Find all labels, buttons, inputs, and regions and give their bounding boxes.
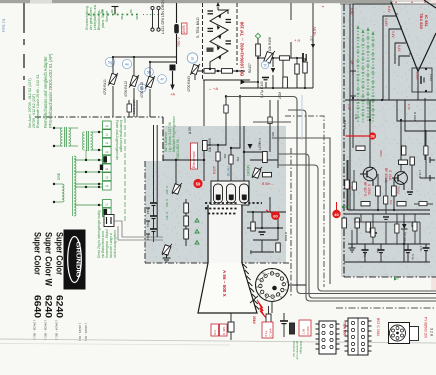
svg-text:( 34223 - 01 ): ( 34223 - 01 ) (78, 323, 82, 341)
label: BF 459 G red (384, 168, 392, 183)
svg-text:2,7k: 2,7k (354, 114, 358, 120)
svg-text:RA157: RA157 (248, 63, 252, 73)
dashed rail left of multiplier (202, 3, 204, 80)
svg-text:0,4V: 0,4V (391, 31, 395, 38)
resistor R698 (251, 222, 255, 231)
resistor R992 (345, 180, 349, 189)
resistor R460 (295, 64, 299, 74)
red spot 59 (193, 179, 202, 188)
svg-text:15k: 15k (223, 154, 227, 159)
dotted neck crossing row 2 (205, 209, 238, 214)
resistor R684 (290, 323, 295, 334)
connector pins L421 (151, 6, 160, 31)
wire: y122 link (253, 121, 291, 123)
svg-text:+: + (322, 5, 324, 9)
junction dots center block (175, 95, 279, 229)
potentiometer R411 (108, 73, 118, 86)
svg-text:10: 10 (390, 0, 394, 4)
wire: pin 6 L (399, 56, 410, 66)
svg-text:BD 160/641=002 ↔ Trf 198: BD 160/641=002 ↔ Trf 198 (240, 21, 245, 76)
green warning triangles (195, 219, 199, 245)
resistor R991 (366, 222, 370, 232)
diode D484 (218, 35, 221, 40)
svg-text:BST C 0581: BST C 0581 (376, 318, 380, 337)
label: red box R684 (299, 320, 311, 336)
potentiometer R463 (190, 64, 200, 80)
label: TBA 530 IC 981 (419, 13, 429, 30)
resistor R696 (263, 173, 272, 177)
svg-text:↔ +A: ↔ +A (208, 86, 218, 91)
page fold line 2 (0, 344, 230, 346)
svg-text:1,1k: 1,1k (347, 104, 351, 110)
right edge pink tint (431, 0, 436, 290)
red spot 40 (332, 210, 340, 218)
wire: resistor row (198, 71, 250, 80)
svg-text:40: 40 (334, 212, 339, 217)
shaded module: CRT base panel (center block) (145, 126, 286, 263)
svg-text:560: 560 (271, 132, 275, 137)
svg-text:0,47µ C143: 0,47µ C143 (260, 81, 264, 98)
title: Super Color W 6240 (44, 232, 54, 318)
svg-text:4700 R411: 4700 R411 (103, 79, 107, 95)
potentiometer R458 (264, 51, 275, 63)
label: green cap refs (165, 186, 169, 220)
page fold line (0, 339, 436, 343)
svg-text:BLAU: BLAU (227, 166, 231, 176)
wire: right block extras (347, 130, 433, 244)
svg-text:R 395: R 395 (222, 327, 226, 335)
resistor R994 (384, 196, 388, 204)
resistor R688 above block (224, 105, 228, 113)
wire: heater leads (250, 285, 306, 313)
green dotted feeder line (88, 14, 140, 16)
CRT base pin numbers (256, 267, 289, 302)
svg-text:10: 10 (105, 124, 109, 128)
resistor R692 gun wire (229, 155, 233, 164)
resistor R995 (419, 202, 427, 206)
svg-text:1,5k: 1,5k (419, 246, 423, 252)
diode D486 (218, 55, 221, 60)
capacitor C982 (371, 233, 377, 235)
op-amp output drop (417, 72, 419, 101)
junction dots op-amp (381, 68, 427, 101)
IC U980 DIP (316, 321, 340, 354)
svg-text:0,1µ: 0,1µ (411, 254, 415, 260)
wire: pot bus top (113, 57, 176, 117)
svg-text:14: 14 (105, 167, 109, 171)
dash-dot boundary: horizontal module line left (35, 116, 163, 118)
dash-dot boundary: right block left edge (343, 4, 345, 277)
wire: stage interconnect (348, 98, 430, 210)
potentiometer R695 (252, 167, 262, 178)
transistor Q984 BF459 (392, 171, 407, 190)
svg-text:TBA 530: TBA 530 (419, 13, 424, 30)
wire: funnel drain (230, 313, 232, 340)
wire: block right lower net (247, 197, 286, 252)
dash-dot boundary: right block bottom (344, 276, 436, 278)
ground symbol right block (349, 244, 356, 252)
main winding column (74, 156, 76, 216)
wire: top-right gray edge line (340, 3, 436, 5)
svg-text:8,2k: 8,2k (410, 222, 414, 228)
capacitor C981 (407, 192, 413, 194)
resistor R985 (376, 186, 381, 196)
pincushion transducer caps (129, 100, 137, 117)
coil L901 (61, 128, 63, 146)
shaded module: video output panel (right block) (341, 4, 436, 277)
svg-text:4700 R413: 4700 R413 (140, 82, 144, 98)
svg-text:C 405: C 405 (165, 186, 169, 194)
dash-dot boundary: vertical at x163 (162, 117, 164, 161)
wire: red stub 40 (336, 202, 338, 210)
wire: 700V line (176, 3, 178, 64)
svg-text:gemessen und: gemessen und (296, 341, 300, 360)
node 4c circle (261, 61, 268, 68)
dash-dot channel line (285, 116, 324, 287)
resistor R998 (413, 222, 417, 231)
svg-text:( 24634 - 051 ): ( 24634 - 051 ) (55, 320, 59, 340)
green ladder ticks (356, 38, 374, 117)
dash-dot boundary: center block bottom (145, 262, 290, 264)
svg-text:Konvergenz-Leitungen: Konvergenz-Leitungen (119, 120, 123, 152)
green ladder arrowheads (356, 25, 374, 35)
svg-text:2,2M: 2,2M (278, 92, 282, 99)
title: Super Color 6640 (33, 232, 43, 318)
svg-text:ROT: ROT (213, 165, 217, 174)
node 5b circle (145, 68, 154, 77)
svg-text:4700 R463: 4700 R463 (187, 76, 191, 92)
svg-text:L476: L476 (258, 143, 262, 150)
label: red box pair M2 (211, 324, 227, 336)
potentiometer R413 (145, 76, 155, 89)
resistor R997 (371, 228, 375, 237)
junction dots right block (352, 97, 405, 245)
svg-text:2,7k: 2,7k (407, 104, 411, 110)
svg-text:12: 12 (105, 141, 109, 145)
terminal dots green module (53, 127, 100, 206)
faint blue wire pair (301, 95, 303, 140)
node: green diamond test point (255, 33, 260, 38)
svg-text:( 24639 - 051 ): ( 24639 - 051 ) (44, 320, 48, 340)
svg-text:L 70 A: L 70 A (418, 170, 422, 178)
label: misc red right (349, 186, 393, 205)
wire: yoke feed risers (154, 125, 158, 237)
resistor R981 (356, 146, 365, 150)
svg-text:0,1µ: 0,1µ (376, 248, 380, 254)
pin labels (390, 0, 411, 56)
resistor column R685 (184, 203, 189, 239)
svg-text:Farbe und Zugehorigkeit der: Farbe und Zugehorigkeit der (115, 120, 119, 161)
svg-text:15k: 15k (236, 157, 240, 162)
svg-text:10k: 10k (389, 200, 393, 205)
ground symbol center block (163, 254, 171, 262)
svg-text:FFS-Einbauchassis 29301=002 S: FFS-Einbauchassis 29301=002 S1 (AP) (48, 53, 53, 128)
svg-text:C 684: C 684 (269, 328, 273, 336)
module border (124, 118, 126, 222)
svg-text:IC 981: IC 981 (424, 15, 429, 28)
wire: left column links (146, 199, 186, 246)
gun B (240, 184, 249, 203)
red spot 2B (369, 132, 376, 139)
svg-text:L 57: L 57 (310, 36, 314, 42)
svg-text:5b: 5b (147, 70, 152, 75)
resistor R691 gun wire (216, 152, 220, 161)
svg-text:6240: 6240 (44, 295, 54, 318)
svg-text:R 684: R 684 (306, 326, 310, 334)
resistor R462 (204, 69, 215, 74)
svg-text:DIN Abgel.: DIN Abgel. (299, 341, 303, 355)
svg-text:5f: 5f (264, 63, 267, 67)
wire: lower stage (344, 214, 430, 262)
capacitor C481 plates (208, 11, 214, 14)
svg-text:M 2: M 2 (213, 330, 217, 335)
capacitor C688 (259, 232, 266, 235)
diode D485 (217, 46, 220, 51)
connector plug left (104, 215, 114, 227)
CRT anode hatch (243, 264, 259, 310)
wire: R464 to bus (240, 39, 313, 89)
svg-text:Super Color: Super Color (33, 232, 43, 275)
op-amp U981 TBA530 V outline (391, 0, 436, 72)
resistor R987 (361, 202, 370, 206)
CRT A56-500X neck (208, 205, 242, 263)
resistor R697 (228, 322, 234, 332)
wire: red stub 60 (266, 210, 272, 214)
title: Super Color 6240 (55, 232, 65, 318)
diode D483 (217, 25, 220, 30)
svg-text:0,1µ: 0,1µ (264, 330, 268, 336)
svg-text:17: 17 (105, 203, 109, 207)
capacitor C983 (362, 250, 369, 262)
gun G (227, 184, 236, 203)
dash-dot bus line lower (336, 307, 436, 309)
wire: pin 8 L (389, 29, 401, 100)
svg-text:25kV: 25kV (252, 316, 256, 325)
resistor R693 (203, 141, 208, 151)
svg-text:TBA 800: TBA 800 (343, 322, 347, 336)
dash-dot boundary: center block left (144, 161, 146, 263)
capacitor C143 (262, 78, 269, 80)
resistor R465 (303, 62, 307, 73)
svg-text:▶24: ▶24 (342, 205, 349, 209)
label: red box L476 (182, 23, 188, 34)
connector strip squares (103, 121, 112, 190)
svg-text:Super Color W: Super Color W (44, 232, 54, 287)
wire: pin 9 L (383, 16, 397, 100)
diode D466 (241, 80, 246, 85)
label: green note block top (85, 5, 109, 30)
label: red box C684 (262, 322, 273, 338)
svg-text:13: 13 (105, 150, 109, 154)
svg-text:Ruckfuhr nut: Ruckfuhr nut (292, 341, 296, 357)
label: BF 457 G red (363, 182, 371, 197)
svg-text:S 1943: S 1943 (367, 184, 371, 195)
svg-text:L421 DRI LIN DRO L431: L421 DRI LIN DRO L431 (161, 0, 165, 34)
resistor R683 (266, 314, 271, 326)
svg-text:5g: 5g (108, 60, 112, 65)
wire: left vertical dashed scan line (23, 3, 25, 100)
resistor R999 (395, 224, 399, 233)
node 5 circle (187, 53, 197, 63)
potentiometer R412 (129, 75, 139, 88)
wire: +A arrow (172, 71, 174, 86)
diode D481 top (216, 2, 220, 6)
label: red box C693 (191, 143, 198, 169)
wire: channel riser B (272, 138, 330, 284)
svg-text:100k: 100k (368, 228, 372, 234)
svg-text:▶7: ▶7 (394, 277, 399, 281)
svg-text:4e: 4e (125, 62, 130, 67)
coil L902 (83, 132, 85, 150)
svg-text:Super Color: Super Color (55, 232, 65, 275)
label: component values right block (343, 112, 422, 260)
svg-text:( 24639 - 051 ): ( 24639 - 051 ) (33, 320, 37, 340)
capacitor C484 plates (226, 20, 232, 23)
resistor R990 (355, 218, 359, 228)
diode D465 (271, 68, 275, 73)
transistor Q983 BF457 (360, 167, 377, 186)
right edge connector marks (430, 157, 435, 181)
svg-text:0,47µ: 0,47µ (363, 250, 367, 257)
svg-text:R 196A: R 196A (413, 112, 417, 121)
svg-text:FFS 74: FFS 74 (1, 18, 6, 32)
wire: channel riser A (226, 97, 436, 294)
capacitor C482 plates (208, 29, 214, 32)
CRT base key dot (272, 286, 277, 291)
resistor R464 (256, 44, 261, 56)
svg-text:GRÜN: GRÜN (247, 165, 251, 176)
svg-text:6640: 6640 (33, 295, 43, 318)
diode D693 (248, 144, 253, 149)
resistor L476b right (263, 152, 268, 163)
label: green bottom note (292, 341, 303, 360)
label: green cable note (97, 210, 117, 258)
CRT base pins (259, 272, 286, 299)
CRT base pinout circle (256, 269, 289, 302)
resistor R699 (276, 243, 280, 252)
EHT flash symbol (257, 300, 266, 318)
svg-text:+: + (411, 0, 413, 4)
svg-text:+ A: + A (294, 38, 300, 43)
label: part numbers small (33, 320, 89, 341)
capacitor C684 (280, 313, 288, 337)
svg-text:BF 457 G: BF 457 G (363, 182, 367, 197)
svg-text:15: 15 (105, 176, 109, 180)
svg-text:2B: 2B (370, 135, 375, 139)
svg-text:200V: 200V (379, 150, 383, 157)
potentiometer R686 (162, 244, 172, 255)
label: green connector notes (115, 120, 123, 161)
wire: pin 10 L (353, 4, 392, 130)
wire: channel riser C (278, 154, 436, 298)
capacitor column C685 (150, 198, 157, 242)
wire: channel riser D (278, 165, 436, 291)
svg-text:0,48V: 0,48V (415, 72, 419, 80)
svg-text:1,5k: 1,5k (302, 328, 306, 334)
svg-text:8,4V: 8,4V (397, 45, 401, 52)
capacitor C477 electrolytic (303, 53, 306, 62)
GRUNDIG logo block (64, 230, 86, 290)
svg-text:R 1943: R 1943 (343, 120, 347, 129)
shield line T marks (350, 4, 356, 210)
dashed rail right of multiplier (236, 3, 238, 65)
wire: block internal (163, 126, 278, 184)
svg-text:B 5m→: B 5m→ (262, 182, 274, 186)
svg-text:1000 102R: 1000 102R (132, 98, 136, 114)
svg-text:+A: +A (170, 92, 175, 97)
svg-text:1N76: 1N76 (182, 25, 186, 33)
svg-text:6240: 6240 (55, 295, 65, 318)
capacitor C483 (207, 48, 214, 52)
svg-text:6,4V: 6,4V (387, 6, 391, 13)
label: red values right block (347, 104, 411, 157)
svg-text:SD 1941: SD 1941 (403, 232, 407, 243)
label: green chassis text column 1 (43, 53, 53, 128)
svg-text:A 59: A 59 (188, 127, 192, 134)
svg-text:C163: C163 (429, 74, 433, 81)
choke component on +A line (170, 65, 176, 71)
resistor 102R (127, 104, 131, 112)
node 5g circle (105, 57, 114, 66)
HV multiplier zigzag wires (210, 10, 228, 69)
convergence module (green ink) (54, 118, 125, 222)
svg-text:60: 60 (273, 213, 278, 218)
label: green block note (164, 115, 176, 152)
svg-text:29301=002 06: 29301=002 06 (176, 139, 180, 160)
svg-text:S 1941: S 1941 (388, 170, 392, 181)
junction dots pots (112, 56, 151, 63)
svg-text:C 406: C 406 (165, 199, 169, 207)
resistor R983 (402, 146, 406, 155)
svg-text:( 34224 - 01 ): ( 34224 - 01 ) (84, 323, 88, 341)
wire: red feed line (346, 135, 370, 137)
wire: channel riser E (288, 110, 436, 301)
resistor R461 1000V (283, 77, 288, 88)
taps to connector (75, 159, 102, 161)
svg-text:0,48V: 0,48V (384, 18, 388, 27)
wire: block main rail y100 (345, 100, 436, 171)
antenna T symbol (112, 7, 119, 15)
svg-text:+8,5V: +8,5V (313, 26, 317, 36)
svg-text:A 56 – 500 X: A 56 – 500 X (222, 270, 227, 298)
svg-text:11: 11 (105, 133, 108, 137)
wire: lower extras (352, 214, 415, 244)
svg-text:C 407: C 407 (165, 212, 169, 220)
label: C685 column (146, 207, 150, 240)
capacitor C984 (378, 250, 385, 262)
svg-text:+: + (395, 0, 397, 4)
label: top-right red marks (395, 0, 426, 4)
capacitor C985 (405, 250, 412, 262)
resistor R989 (342, 218, 346, 228)
red spot 60 (271, 211, 280, 220)
resistor R986 (392, 186, 397, 196)
svg-text:DRE: DRE (57, 172, 61, 180)
svg-text:4,7k: 4,7k (353, 218, 357, 224)
capacitor C986 (423, 248, 430, 262)
valve socket PY88 (389, 323, 419, 344)
svg-text:3 2 8: 3 2 8 (430, 328, 434, 336)
svg-text:Ruckwande f.Ausf 29.80 - 012: Ruckwande f.Ausf 29.80 - 012 S1 (36, 74, 40, 128)
resistor R993 (352, 182, 356, 190)
label: connector numbers (105, 124, 109, 207)
resistor R689 above block (268, 117, 272, 124)
CRT socket outline (211, 181, 249, 205)
resistor R982 (399, 160, 408, 164)
capacitor C163 box (412, 68, 433, 92)
svg-text:700 V: 700 V (177, 37, 181, 47)
connector lower pair (103, 200, 112, 217)
